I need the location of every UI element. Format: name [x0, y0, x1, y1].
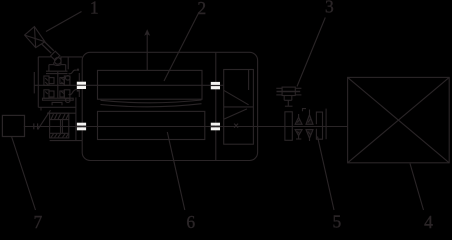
- sprocket bowtie 1: [295, 114, 302, 139]
- machine frame big box: [82, 52, 257, 160]
- big pulley (diamond with cross): [25, 27, 45, 48]
- svg-text:1: 1: [90, 0, 99, 17]
- shaft break squiggle upper: [69, 70, 77, 74]
- intermediate vertical shaft: [57, 72, 59, 98]
- svg-text:2: 2: [197, 0, 206, 18]
- leader line 6: [167, 132, 185, 210]
- diagonal strut: [38, 110, 51, 129]
- upper right bracket: [316, 112, 322, 126]
- brake coupling (element 3): [276, 87, 301, 106]
- lower plate: [43, 98, 74, 100]
- svg-text:3: 3: [325, 0, 334, 16]
- lower drum: [98, 111, 205, 139]
- leader line 1: [46, 12, 82, 32]
- up arrow: [144, 29, 150, 70]
- driven machine box with X (element 4): [348, 77, 450, 162]
- sagging belt upper line: [101, 100, 202, 103]
- lower right bracket: [316, 127, 322, 139]
- small verticals under casing: [40, 107, 42, 110]
- bearing circle A: [66, 76, 71, 81]
- upper drum: [98, 70, 203, 99]
- small bracket between sprockets: [303, 109, 307, 112]
- wall break mark (white) shaft 2 right: [211, 123, 220, 131]
- wall break mark (white) shaft A left: [77, 82, 86, 89]
- svg-text:7: 7: [34, 212, 43, 229]
- hatch band upper: [51, 114, 68, 119]
- shaft break squiggle lower: [69, 89, 78, 94]
- bearing cross on shaft 2: [234, 124, 238, 128]
- leader line 2: [164, 12, 199, 81]
- sprocket bowtie 2: [306, 110, 313, 142]
- casing right wall upper: [67, 57, 69, 69]
- svg-text:6: 6: [186, 212, 195, 229]
- drive pulley tall rect (element 5 group): [285, 112, 292, 141]
- gearbox casing top edge: [38, 56, 51, 58]
- motor square (element 7): [2, 115, 24, 136]
- bearing seat under pulley: [49, 57, 66, 71]
- gear pair A1: [44, 76, 54, 85]
- gear pair B1: [44, 90, 54, 99]
- svg-text:4: 4: [424, 212, 433, 229]
- under-casing gear block: [47, 113, 82, 140]
- wall break mark (white) shaft A right: [211, 82, 220, 89]
- gear pair A2: [60, 76, 70, 85]
- tiny cross marks: [77, 69, 79, 71]
- bearing circle B: [66, 98, 71, 103]
- wall break mark (white) shaft 2 left: [77, 123, 86, 131]
- casing bottom edge: [38, 106, 76, 108]
- leader line 5: [318, 137, 335, 211]
- belt (two parallel lines): [42, 42, 54, 53]
- bearing end cap left: [33, 72, 35, 93]
- leader line 4: [410, 164, 424, 211]
- gearbox shelf (double line): [46, 70, 68, 72]
- upper shaft (shaft A): [34, 84, 223, 86]
- lower main shaft (shaft 2): [24, 126, 348, 128]
- small pulley diamond: [51, 51, 60, 60]
- small pulley circle: [55, 58, 62, 65]
- gear pair B2: [60, 90, 70, 99]
- bearing line: [325, 109, 327, 140]
- casing right wall mid: [78, 73, 80, 81]
- leader line 3: [297, 18, 325, 87]
- svg-text:5: 5: [333, 212, 342, 229]
- internal wall: [215, 52, 217, 160]
- screen box (tall rect right of drums): [224, 70, 254, 145]
- sagging belt lower line: [101, 104, 202, 107]
- coupling ticks near motor: [34, 123, 38, 129]
- leader line 7: [12, 137, 36, 210]
- bottom bracket: [52, 102, 62, 105]
- casing left wall: [37, 57, 39, 107]
- hatch band lower: [51, 134, 68, 138]
- casing right wall lower: [75, 98, 77, 141]
